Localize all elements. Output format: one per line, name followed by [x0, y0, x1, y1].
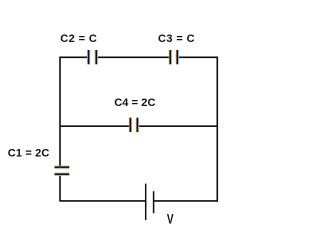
battery V	[146, 184, 154, 221]
wire: top edge left segment	[60, 56, 89, 58]
svg-text:C2 = C: C2 = C	[60, 33, 97, 45]
capacitor C4	[129, 118, 138, 132]
svg-text:V: V	[167, 212, 174, 227]
capacitor C1	[55, 166, 70, 175]
svg-text:C1 = 2C: C1 = 2C	[8, 147, 50, 159]
wire: left edge lower segment	[59, 174, 61, 201]
wire: top edge right segment	[177, 56, 218, 58]
wire: middle wire right segment	[138, 125, 219, 127]
wire: bottom edge right segment	[154, 200, 218, 202]
svg-text:C3 = C: C3 = C	[158, 33, 195, 45]
wire: top edge middle segment	[96, 56, 170, 58]
wire: bottom edge left segment	[60, 200, 146, 202]
capacitor C3	[169, 50, 178, 64]
wire: right edge	[216, 57, 218, 202]
svg-text:C4 = 2C: C4 = 2C	[114, 97, 155, 109]
capacitor C2	[88, 50, 98, 64]
wire: left edge upper segment	[59, 57, 61, 168]
wire: middle wire left segment	[60, 125, 130, 127]
